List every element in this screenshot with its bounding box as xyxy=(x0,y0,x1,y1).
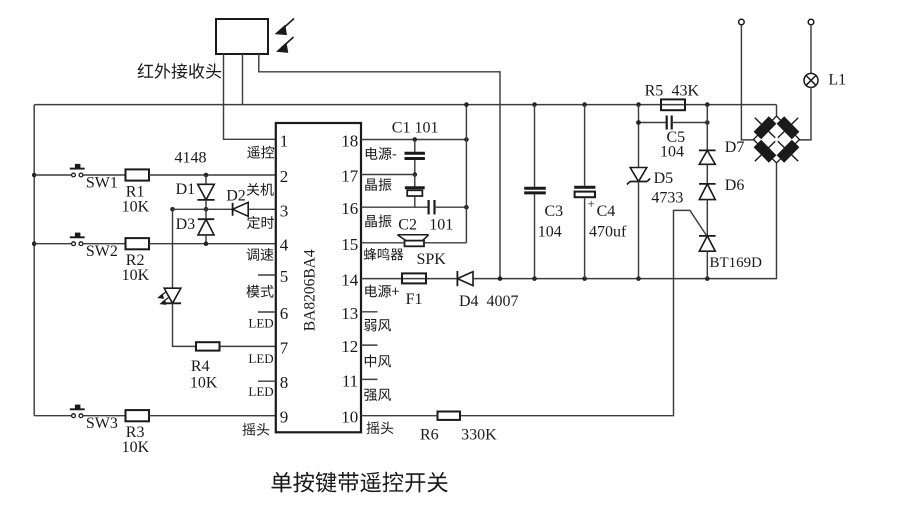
svg-text:LED: LED xyxy=(248,384,273,399)
node junction rail C3 xyxy=(532,102,537,107)
svg-text:C1 101: C1 101 xyxy=(392,120,439,137)
svg-text:4148: 4148 xyxy=(175,149,207,166)
wire right terminal to lamp xyxy=(810,25,812,74)
capacitor C3 xyxy=(534,105,536,187)
label pin10 摇头 xyxy=(367,421,394,434)
wire VDD row to bridge xyxy=(473,164,777,279)
wire right loop vertical xyxy=(465,105,467,243)
wire rail to bridge top vertex xyxy=(776,105,778,116)
bridge rectifier outline xyxy=(754,116,800,163)
resistor R3 xyxy=(126,410,150,421)
wire rail to D5 xyxy=(638,105,640,168)
wire D6 to SCR xyxy=(706,200,708,236)
node junction C2 right corner xyxy=(464,205,469,210)
node junction left rail SW2 row xyxy=(32,241,37,246)
IR arrow 2 xyxy=(281,37,294,48)
label pin2 关机 xyxy=(247,183,274,196)
label pin12 中风 xyxy=(365,355,391,368)
svg-text:BT169D: BT169D xyxy=(710,255,763,271)
diode D3 xyxy=(205,209,207,219)
node junction rail C loop xyxy=(464,102,469,107)
svg-text:D1: D1 xyxy=(176,181,196,198)
node junction VDD D5 xyxy=(636,276,641,281)
resistor R4 xyxy=(196,342,220,350)
wire pin16 row xyxy=(361,206,428,208)
wire loop bottom to speaker xyxy=(424,242,466,244)
wire LED branch vertical upper xyxy=(172,209,174,288)
bridge diode top-right xyxy=(780,120,795,136)
pin 5 stub xyxy=(258,274,276,276)
svg-text:10K: 10K xyxy=(122,267,150,284)
node junction C5 right xyxy=(705,120,710,125)
node junction pin18 right corner xyxy=(464,137,469,142)
svg-text:11: 11 xyxy=(342,371,358,390)
svg-text:470uf: 470uf xyxy=(589,224,627,241)
pin 13 stub xyxy=(361,311,378,313)
svg-text:SW2: SW2 xyxy=(86,243,118,260)
svg-text:D7: D7 xyxy=(725,139,745,156)
wire SW2 to resistor xyxy=(83,243,126,245)
node junction rail D7 chain xyxy=(705,102,710,107)
diode D4 xyxy=(456,271,458,286)
node junction pin18 C1 xyxy=(413,137,418,142)
wire R2 to D3 node and pin4 xyxy=(149,243,276,245)
svg-text:101: 101 xyxy=(429,217,453,234)
label pin15 蜂鸣器 xyxy=(364,248,404,261)
node junction C5 left xyxy=(636,120,641,125)
svg-text:4: 4 xyxy=(280,236,289,255)
wire IR left lead to pin1 xyxy=(224,54,276,139)
fuse F1 xyxy=(402,273,426,283)
zener diode D5 4733 xyxy=(630,168,647,182)
svg-text:BA8206BA4: BA8206BA4 xyxy=(302,249,319,331)
bridge diode bottom-right xyxy=(780,144,795,160)
svg-text:LED: LED xyxy=(248,316,273,331)
label pin16 晶振 xyxy=(365,215,391,228)
node junction R1 D1 xyxy=(204,173,209,178)
capacitor C5 xyxy=(639,122,666,124)
resistor R5 xyxy=(661,99,685,110)
wire R1 to D1 node and pin2 xyxy=(149,174,276,176)
label pin18 电源- xyxy=(366,147,396,160)
svg-text:4733: 4733 xyxy=(651,189,683,206)
svg-text:C2: C2 xyxy=(398,217,417,234)
svg-text:10K: 10K xyxy=(122,439,150,456)
wire IR right lead to VDD line xyxy=(259,54,500,279)
svg-text:3: 3 xyxy=(280,201,289,220)
bridge diode bottom-left xyxy=(757,144,772,160)
svg-text:330K: 330K xyxy=(461,426,497,443)
svg-text:R5: R5 xyxy=(645,82,664,99)
diode D7 xyxy=(699,149,716,151)
node junction D1 D3 row xyxy=(204,207,209,212)
label pin3 定时 xyxy=(247,216,274,229)
speaker SPK buzzer xyxy=(405,241,425,247)
svg-text:43K: 43K xyxy=(672,82,700,99)
node junction rail D5 xyxy=(636,102,641,107)
terminal right xyxy=(808,19,814,25)
svg-text:+: + xyxy=(588,196,595,211)
wire IR middle lead to rail xyxy=(242,54,244,105)
capacitor C4 electrolytic xyxy=(584,105,586,186)
svg-text:7: 7 xyxy=(280,338,289,357)
svg-text:L1: L1 xyxy=(828,71,846,88)
label pin14 电源+ xyxy=(365,285,399,298)
crystal Y1 xyxy=(414,175,416,188)
svg-text:12: 12 xyxy=(341,337,358,356)
resistor R6 xyxy=(438,412,461,420)
svg-text:16: 16 xyxy=(341,199,358,218)
wire left vertical rail xyxy=(33,105,35,416)
wire pin10 to R6 xyxy=(361,415,438,417)
label pin17 晶振 xyxy=(365,178,391,191)
svg-text:R6: R6 xyxy=(420,426,439,443)
node junction VDD SCR cathode xyxy=(705,276,710,281)
diode D1 xyxy=(205,175,207,184)
pin 8 stub xyxy=(258,380,276,382)
lamp L1 xyxy=(804,73,818,87)
node junction rail C4 xyxy=(582,102,587,107)
LED arrow 1 xyxy=(160,292,167,297)
wire LED to R4 xyxy=(173,303,197,346)
svg-text:LED: LED xyxy=(248,351,273,366)
svg-text:1: 1 xyxy=(280,131,289,150)
wire left terminal to bridge left vertex xyxy=(741,25,754,140)
node junction D3 R2 pin4 xyxy=(204,241,209,246)
wire lamp to bridge right vertex xyxy=(799,87,811,139)
svg-text:15: 15 xyxy=(341,235,358,254)
label pin9 摇头 xyxy=(243,423,270,436)
wire pin15 to speaker xyxy=(361,242,405,244)
op-amp IC U1 BA8206BA4 body xyxy=(276,123,361,432)
capacitor C2 xyxy=(428,200,430,214)
svg-text:104: 104 xyxy=(538,224,562,241)
svg-text:D4: D4 xyxy=(459,293,479,310)
svg-text:C4: C4 xyxy=(597,203,616,220)
node junction LED branch xyxy=(170,207,175,212)
wire SW1 to resistor xyxy=(83,174,126,176)
pin 12 stub xyxy=(361,344,378,346)
wire SCR cathode to VDD row xyxy=(706,251,708,278)
label 红外接收头 xyxy=(138,63,222,79)
svg-text:D5: D5 xyxy=(654,170,674,187)
svg-text:6: 6 xyxy=(280,304,289,323)
switch SW3 xyxy=(34,415,71,417)
svg-text:8: 8 xyxy=(280,373,289,392)
switch SW1 xyxy=(34,174,71,176)
svg-text:9: 9 xyxy=(280,408,289,427)
svg-text:13: 13 xyxy=(341,304,358,323)
node junction VDD IR line xyxy=(498,276,503,281)
wire top power rail xyxy=(34,104,776,106)
svg-text:F1: F1 xyxy=(406,291,423,308)
LED LED1 xyxy=(164,288,181,303)
node junction VDD C3 xyxy=(532,276,537,281)
node junction pin17 crystal xyxy=(413,172,418,177)
svg-text:D3: D3 xyxy=(176,216,196,233)
wire R3 to pin9 xyxy=(149,415,276,417)
svg-text:14: 14 xyxy=(341,271,359,290)
svg-text:SPK: SPK xyxy=(417,251,447,268)
title 单按键带遥控开关 xyxy=(272,472,448,493)
node junction VDD C4 xyxy=(582,276,587,281)
svg-text:D6: D6 xyxy=(725,177,745,194)
svg-text:C3: C3 xyxy=(545,203,564,220)
label pin1 遥控 xyxy=(247,146,274,159)
terminal left xyxy=(739,19,745,25)
label pin5 模式 xyxy=(246,285,273,298)
wire pin18 row xyxy=(361,139,466,141)
LED arrow 2 xyxy=(162,298,169,303)
IR receiver module 红外接收头 xyxy=(216,19,268,54)
svg-text:2: 2 xyxy=(280,167,289,186)
svg-text:SW1: SW1 xyxy=(86,175,118,192)
node junction D5 C5 branch xyxy=(636,120,641,125)
wire pin17 row xyxy=(361,174,415,176)
wire pin14 row xyxy=(361,278,457,280)
svg-text:4007: 4007 xyxy=(487,293,519,310)
thyristor Q1 BT169D xyxy=(699,235,716,237)
diode D6 xyxy=(699,183,716,185)
resistor R2 xyxy=(126,238,150,249)
resistor R1 xyxy=(126,169,150,180)
label pin13 弱风 xyxy=(364,319,391,331)
wire D1D3 node to D2 xyxy=(173,208,233,210)
wire SW3 to resistor xyxy=(83,415,126,417)
IR arrow 1 xyxy=(280,19,294,32)
svg-text:R4: R4 xyxy=(191,358,210,375)
svg-text:18: 18 xyxy=(341,132,358,151)
svg-text:104: 104 xyxy=(660,144,684,161)
bridge diode top-left xyxy=(757,120,772,136)
label pin11 强风 xyxy=(364,389,391,401)
svg-text:10K: 10K xyxy=(122,199,150,216)
wire D7 to D6 xyxy=(706,164,708,184)
capacitor C1 xyxy=(414,140,416,152)
wire rail to D7 xyxy=(706,105,708,151)
diode D2 xyxy=(232,203,234,216)
wire R4 to pin7 xyxy=(220,345,276,347)
wire D2 to pin3 xyxy=(248,208,276,210)
label pin4 调速 xyxy=(247,248,274,261)
svg-text:10: 10 xyxy=(341,408,358,427)
node junction left rail SW1 row xyxy=(32,173,37,178)
svg-text:10K: 10K xyxy=(190,374,218,391)
pin 6 stub xyxy=(258,311,276,313)
svg-text:5: 5 xyxy=(280,267,289,286)
svg-text:SW3: SW3 xyxy=(86,415,118,432)
switch SW2 xyxy=(34,243,71,245)
pin 11 stub xyxy=(361,378,378,380)
svg-text:17: 17 xyxy=(341,167,359,186)
wire SCR gate xyxy=(460,210,707,415)
svg-text:D2: D2 xyxy=(226,187,246,204)
